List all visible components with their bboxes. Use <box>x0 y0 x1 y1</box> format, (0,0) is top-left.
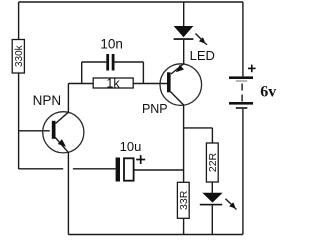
svg-text:330k: 330k <box>14 44 25 67</box>
capacitor C2 plus sign <box>136 155 145 164</box>
wire 1k to PNP base <box>133 83 167 85</box>
capacitor C2 10u electrolytic <box>19 158 184 182</box>
transistor Q2 PNP <box>160 64 202 106</box>
wire LED1 anode from top rail <box>183 2 185 27</box>
wire bottom rail <box>68 234 243 236</box>
svg-text:10u: 10u <box>120 139 142 154</box>
LED D1 arrow <box>196 34 208 45</box>
wire top rail <box>19 1 243 3</box>
resistor R3 22R <box>206 143 219 182</box>
wire right rail lower <box>242 109 244 235</box>
svg-text:22R: 22R <box>207 152 219 172</box>
resistor R4 33R <box>177 182 190 218</box>
svg-text:PNP: PNP <box>142 102 168 116</box>
svg-text:6v: 6v <box>260 83 276 100</box>
LED D2 <box>200 193 223 235</box>
resistor R1 330k <box>12 40 25 74</box>
svg-text:1k: 1k <box>106 76 120 90</box>
LED D2 arrow <box>226 199 237 210</box>
battery B1 <box>229 76 253 108</box>
wire right rail upper <box>242 2 244 76</box>
transistor Q1 NPN <box>43 112 84 153</box>
svg-text:33R: 33R <box>178 190 190 210</box>
wire 22R to LED2 <box>211 182 213 193</box>
battery plus sign <box>248 65 256 73</box>
wire left rail upper <box>18 2 20 40</box>
resistor R2 1k <box>93 76 133 90</box>
wire 33R to bottom rail <box>183 218 185 234</box>
wire NPN collector up <box>68 84 93 113</box>
wire NPN emitter down <box>67 152 69 235</box>
capacitor C1 10n <box>82 54 144 84</box>
svg-text:NPN: NPN <box>33 93 62 108</box>
wire left rail lower <box>19 73 50 169</box>
wire branch to 22R <box>184 128 213 143</box>
wire PNP collector down <box>183 105 185 182</box>
svg-text:LED: LED <box>190 48 215 63</box>
LED D1 <box>174 26 194 64</box>
svg-text:10n: 10n <box>100 37 123 52</box>
